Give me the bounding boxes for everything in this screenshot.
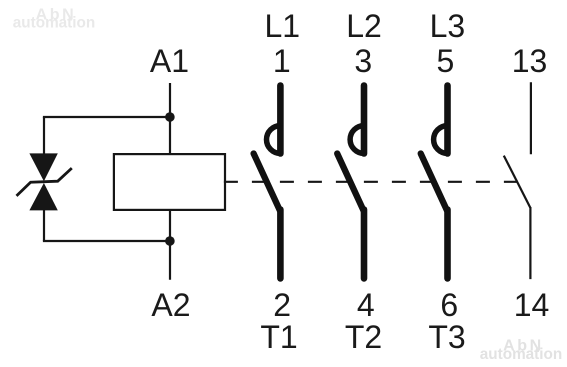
- svg-text:T3: T3: [428, 319, 465, 355]
- svg-text:5: 5: [437, 43, 455, 79]
- svg-text:L3: L3: [430, 8, 466, 44]
- wire A2 lead: [169, 210, 171, 280]
- pole 3 lower terminal bar: [444, 210, 451, 279]
- svg-text:automation: automation: [13, 15, 95, 32]
- pole 2 fixed contact bar: [361, 86, 368, 154]
- pole 2 moving contact: [337, 154, 363, 211]
- wire bottom horizontal: [43, 240, 170, 242]
- svg-text:2: 2: [273, 287, 291, 323]
- svg-text:T1: T1: [260, 319, 297, 355]
- pole 2 contact arc: [350, 126, 364, 154]
- pole 3 contact arc: [434, 126, 448, 154]
- wire left upper: [43, 117, 45, 154]
- svg-text:6: 6: [440, 287, 458, 323]
- svg-text:A1: A1: [150, 43, 189, 79]
- wire left lower: [43, 210, 45, 241]
- watermark bottom-right AbN automation: [480, 338, 562, 364]
- svg-text:1: 1: [273, 43, 291, 79]
- coil K1: [114, 154, 225, 210]
- suppressor upper triangle: [29, 153, 57, 181]
- svg-text:T2: T2: [345, 319, 382, 355]
- svg-text:4: 4: [357, 287, 375, 323]
- pole 3 moving contact: [421, 154, 447, 211]
- aux moving contact: [504, 156, 530, 208]
- svg-text:14: 14: [514, 287, 550, 323]
- svg-text:3: 3: [354, 43, 372, 79]
- pole 1 fixed contact bar: [277, 86, 284, 154]
- aux contact upper lead: [530, 82, 532, 154]
- suppressor zener zigzag line: [17, 168, 72, 196]
- svg-text:automation: automation: [480, 346, 562, 363]
- watermark top-left AbN automation: [13, 7, 95, 32]
- pole 1 contact arc: [267, 126, 281, 154]
- suppressor lower triangle: [29, 183, 57, 210]
- junction dot top: [165, 112, 175, 122]
- junction dot bottom: [165, 236, 175, 246]
- pole 1 lower terminal bar: [277, 210, 284, 279]
- pole 3 fixed contact bar: [444, 86, 451, 154]
- svg-text:A2: A2: [151, 287, 190, 323]
- mechanical linkage dashed line: [224, 181, 518, 183]
- pole 1 moving contact: [254, 154, 280, 211]
- wire top horizontal: [43, 116, 170, 118]
- svg-text:L2: L2: [346, 8, 382, 44]
- svg-text:L1: L1: [265, 8, 301, 44]
- aux contact lower lead: [529, 207, 531, 279]
- pole 2 lower terminal bar: [361, 210, 368, 279]
- wire A1 lead: [169, 83, 171, 154]
- svg-text:13: 13: [512, 43, 548, 79]
